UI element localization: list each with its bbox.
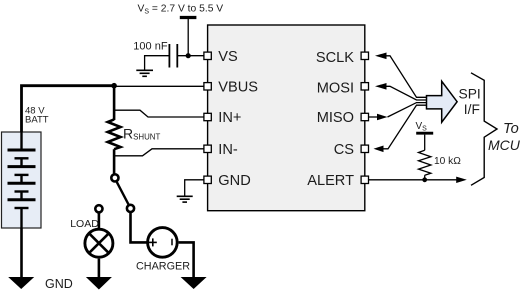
svg-text:VS: VS [218,49,238,65]
svg-text:GND: GND [45,277,73,291]
svg-text:MOSI: MOSI [317,80,354,96]
svg-text:MISO: MISO [317,110,354,126]
svg-text:IN+: IN+ [218,110,241,126]
svg-text:CHARGER: CHARGER [136,260,190,272]
svg-text:IN-: IN- [218,142,238,158]
svg-text:LOAD: LOAD [70,218,99,230]
svg-text:VBUS: VBUS [218,79,258,95]
svg-text:10 kΩ: 10 kΩ [434,156,461,167]
svg-text:GND: GND [218,173,250,189]
svg-text:VS = 2.7 V to 5.5 V: VS = 2.7 V to 5.5 V [138,4,224,16]
svg-text:SCLK: SCLK [316,50,354,66]
svg-text:I/F: I/F [464,102,480,117]
svg-text:CS: CS [334,142,355,158]
svg-text:BATT: BATT [25,115,49,126]
svg-text:100 nF: 100 nF [133,41,168,53]
svg-text:SPI: SPI [459,87,481,102]
svg-text:ALERT: ALERT [307,173,354,189]
svg-text:To: To [503,121,519,137]
svg-text:MCU: MCU [488,137,521,153]
